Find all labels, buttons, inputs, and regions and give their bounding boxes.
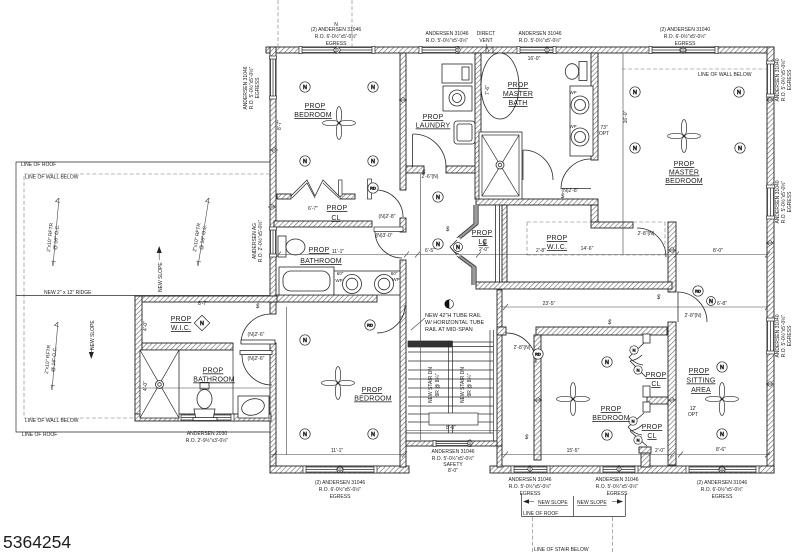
svg-text:CL: CL <box>331 215 340 222</box>
svg-text:N: N <box>371 85 375 91</box>
svg-text:PROP: PROP <box>171 316 192 323</box>
svg-text:EGRESS: EGRESS <box>712 494 734 500</box>
svg-text:5364254: 5364254 <box>3 532 71 552</box>
svg-text:PROP: PROP <box>327 205 348 212</box>
svg-text:4'-0": 4'-0" <box>143 321 149 331</box>
svg-text:N: N <box>737 90 741 96</box>
svg-text:N: N <box>436 242 440 248</box>
svg-text:N: N <box>709 299 713 305</box>
svg-text:$: $ <box>656 295 661 301</box>
svg-text:R.O. 5'-0½"x5'-0½": R.O. 5'-0½"x5'-0½" <box>519 37 562 44</box>
svg-text:PROP: PROP <box>508 82 529 89</box>
svg-text:WP: WP <box>335 278 342 283</box>
svg-text:BEDROOM: BEDROOM <box>294 112 332 119</box>
svg-text:8'-7": 8'-7" <box>198 301 208 307</box>
svg-text:NEW SLOPE: NEW SLOPE <box>90 320 96 350</box>
svg-text:2'-8"(N): 2'-8"(N) <box>514 345 531 351</box>
svg-text:6'-5": 6'-5" <box>425 248 435 254</box>
svg-text:(N)2'-6": (N)2'-6" <box>248 356 265 362</box>
svg-text:R.O. 6'-0½"x5'-0½": R.O. 6'-0½"x5'-0½" <box>315 33 358 40</box>
svg-text:NEW SLOPE: NEW SLOPE <box>158 262 164 292</box>
svg-text:NEW STAIR DN: NEW STAIR DN <box>460 367 466 403</box>
svg-text:R.O. 5'-0½"x5'-0½": R.O. 5'-0½"x5'-0½" <box>596 483 639 490</box>
svg-text:2'-6"(N): 2'-6"(N) <box>422 174 439 180</box>
svg-text:N: N <box>720 432 724 438</box>
svg-text:PROP: PROP <box>305 103 326 110</box>
svg-text:BATH: BATH <box>509 100 528 107</box>
svg-text:LINE OF ROOF: LINE OF ROOF <box>22 432 57 438</box>
svg-text:ANDERSEN 31046: ANDERSEN 31046 <box>431 449 474 455</box>
svg-text:N: N <box>632 419 635 424</box>
svg-text:RD: RD <box>370 186 376 191</box>
svg-text:LINE OF STAIR BELOW: LINE OF STAIR BELOW <box>534 547 589 553</box>
svg-text:R.O. 5'-0½"x5'-0½": R.O. 5'-0½"x5'-0½" <box>432 455 475 462</box>
svg-text:N: N <box>200 321 204 327</box>
svg-text:W.I.C.: W.I.C. <box>547 244 567 251</box>
svg-text:EGRESS: EGRESS <box>520 491 542 497</box>
svg-text:DIRECT: DIRECT <box>477 31 496 37</box>
svg-text:OPT: OPT <box>599 131 609 137</box>
svg-text:$: $ <box>255 304 260 310</box>
svg-text:R.O. 5'-0½"x5'-0½": R.O. 5'-0½"x5'-0½" <box>509 483 552 490</box>
svg-text:CL: CL <box>647 433 656 440</box>
svg-text:PROP: PROP <box>601 406 622 413</box>
svg-text:EGRESS: EGRESS <box>607 491 629 497</box>
svg-text:6'-8": 6'-8" <box>717 301 727 307</box>
svg-text:(2) ANDERSEN 31040: (2) ANDERSEN 31040 <box>660 27 711 33</box>
svg-text:4'-0": 4'-0" <box>143 381 149 391</box>
svg-text:AREA: AREA <box>691 387 711 394</box>
svg-text:RD: RD <box>695 289 701 294</box>
svg-text:2'-0": 2'-0" <box>655 448 665 454</box>
svg-text:6'-7": 6'-7" <box>308 206 318 212</box>
svg-text:N: N <box>334 22 338 28</box>
svg-text:CL: CL <box>651 381 660 388</box>
svg-text:16'-0": 16'-0" <box>528 56 541 62</box>
svg-text:PROP: PROP <box>362 387 383 394</box>
svg-text:(N)2'-8": (N)2'-8" <box>562 188 579 194</box>
svg-text:R.O. 6'-0½"x5'-0½": R.O. 6'-0½"x5'-0½" <box>319 486 362 493</box>
svg-text:EGRESS: EGRESS <box>326 41 348 47</box>
svg-text:W.I.C.: W.I.C. <box>171 325 191 332</box>
svg-text:R.O. 2'-0½"x5'-0½": R.O. 2'-0½"x5'-0½" <box>257 220 264 263</box>
svg-text:BATHROOM: BATHROOM <box>193 377 235 384</box>
svg-text:LINE OF WALL BELOW: LINE OF WALL BELOW <box>25 175 79 181</box>
svg-text:N: N <box>633 90 637 96</box>
svg-text:R.O. 5'-0½"x5'-0½": R.O. 5'-0½"x5'-0½" <box>248 67 255 110</box>
svg-text:2'-8"(N): 2'-8"(N) <box>638 231 655 237</box>
svg-text:NEW 42"H TUBE RAIL: NEW 42"H TUBE RAIL <box>425 313 481 319</box>
svg-text:N: N <box>303 432 307 438</box>
svg-text:$: $ <box>445 227 450 233</box>
svg-text:60": 60" <box>391 271 398 276</box>
svg-text:BEDROOM: BEDROOM <box>592 415 630 422</box>
svg-text:2'-8": 2'-8" <box>536 248 546 254</box>
svg-text:14'-6": 14'-6" <box>581 246 594 252</box>
svg-text:R.O. 2'-9½"x3'-0½": R.O. 2'-9½"x3'-0½" <box>186 437 229 444</box>
svg-text:R.O. 6'-0½"x5'-0½": R.O. 6'-0½"x5'-0½" <box>701 486 744 493</box>
svg-text:11'-1": 11'-1" <box>331 448 344 454</box>
svg-text:N: N <box>303 85 307 91</box>
svg-text:2'-0": 2'-0" <box>479 247 489 253</box>
svg-text:PROP: PROP <box>674 161 695 168</box>
svg-text:R.O. 5'-0½"x5'-0½": R.O. 5'-0½"x5'-0½" <box>780 181 787 224</box>
svg-text:N: N <box>720 365 724 371</box>
svg-text:RAIL AT MID-SPAN: RAIL AT MID-SPAN <box>425 327 473 333</box>
svg-text:WP: WP <box>569 90 576 95</box>
svg-text:8'-0": 8'-0" <box>448 468 458 474</box>
svg-text:16'-0": 16'-0" <box>623 110 629 123</box>
svg-text:MASTER: MASTER <box>503 91 533 98</box>
svg-text:RD: RD <box>367 323 373 328</box>
svg-text:15'-5": 15'-5" <box>567 448 580 454</box>
svg-text:BATHROOM: BATHROOM <box>300 258 342 265</box>
svg-text:ANDERSEN 31046: ANDERSEN 31046 <box>518 31 561 37</box>
svg-text:8'-0": 8'-0" <box>713 248 723 254</box>
svg-text:N: N <box>303 338 307 344</box>
svg-text:11'-1": 11'-1" <box>332 249 345 255</box>
svg-text:W/ HORIZONTAL TUBE: W/ HORIZONTAL TUBE <box>425 320 485 326</box>
svg-text:VENT: VENT <box>479 38 492 44</box>
svg-text:LINE OF ROOF: LINE OF ROOF <box>523 511 558 517</box>
svg-text:EGRESS: EGRESS <box>255 77 261 99</box>
svg-text:9R @ 8¼": 9R @ 8¼" <box>435 373 441 396</box>
svg-text:EGRESS: EGRESS <box>787 191 793 213</box>
svg-text:NEW STAIR DN: NEW STAIR DN <box>428 367 434 403</box>
svg-text:LINE OF ROOF: LINE OF ROOF <box>21 162 56 168</box>
svg-text:EGRESS: EGRESS <box>787 325 793 347</box>
svg-text:N: N <box>371 159 375 165</box>
svg-text:7'-6": 7'-6" <box>485 85 491 95</box>
svg-text:EGRESS: EGRESS <box>787 69 793 91</box>
svg-text:60": 60" <box>337 271 344 276</box>
svg-text:PROP: PROP <box>646 372 667 379</box>
svg-text:N: N <box>637 368 640 373</box>
svg-text:PROP: PROP <box>642 424 663 431</box>
svg-text:LC: LC <box>478 239 487 246</box>
svg-text:N: N <box>605 360 609 366</box>
svg-text:8'-7": 8'-7" <box>277 120 283 130</box>
svg-text:N: N <box>605 433 609 439</box>
svg-text:NEW 2" x 12" RIDGE: NEW 2" x 12" RIDGE <box>44 290 92 296</box>
svg-text:R.O. 6'-0½"x5'-0½": R.O. 6'-0½"x5'-0½" <box>664 33 707 40</box>
svg-text:(N)3'-0": (N)3'-0" <box>376 233 393 239</box>
svg-text:N: N <box>738 146 742 152</box>
svg-text:(2) ANDERSEN 31046: (2) ANDERSEN 31046 <box>697 480 748 486</box>
svg-text:9R @ 8¼": 9R @ 8¼" <box>467 373 473 396</box>
svg-text:(N)2'-6": (N)2'-6" <box>248 332 265 338</box>
svg-text:N: N <box>633 348 636 353</box>
svg-text:23'-5": 23'-5" <box>543 301 556 307</box>
svg-text:$: $ <box>607 320 612 326</box>
svg-text:SITTING: SITTING <box>686 378 715 385</box>
svg-text:N: N <box>456 245 460 251</box>
svg-text:ANDERSEN 31046: ANDERSEN 31046 <box>508 477 551 483</box>
svg-text:PROP: PROP <box>423 114 444 121</box>
svg-text:PROP: PROP <box>472 230 493 237</box>
svg-text:LINE OF WALL BELOW: LINE OF WALL BELOW <box>25 418 79 424</box>
svg-text:$: $ <box>524 435 529 441</box>
svg-text:$: $ <box>560 194 565 200</box>
svg-text:NEW SLOPE: NEW SLOPE <box>538 500 568 506</box>
svg-text:LAUNDRY: LAUNDRY <box>416 123 451 130</box>
svg-text:N: N <box>633 146 637 152</box>
svg-text:(N)2'-8": (N)2'-8" <box>379 214 396 220</box>
svg-text:2'-8"(N): 2'-8"(N) <box>685 313 702 319</box>
svg-text:(2) ANDERSEN 31046: (2) ANDERSEN 31046 <box>315 480 366 486</box>
svg-text:R.O. 5'-0½"x5'-0½": R.O. 5'-0½"x5'-0½" <box>780 59 787 102</box>
svg-text:BEDROOM: BEDROOM <box>665 178 703 185</box>
svg-text:NEW SLOPE: NEW SLOPE <box>577 500 607 506</box>
svg-text:N: N <box>637 438 640 443</box>
svg-text:PROP: PROP <box>547 235 568 242</box>
svg-text:N: N <box>303 159 307 165</box>
svg-text:ANDERSEN 2030: ANDERSEN 2030 <box>187 431 228 437</box>
svg-text:ANDERSEN 31046: ANDERSEN 31046 <box>595 477 638 483</box>
svg-text:R.O. 5'-0½"x5'-0½": R.O. 5'-0½"x5'-0½" <box>426 37 469 44</box>
svg-text:OPT: OPT <box>688 412 698 418</box>
svg-text:EGRESS: EGRESS <box>330 494 352 500</box>
svg-text:8'-0": 8'-0" <box>446 425 456 431</box>
svg-text:ANDERSEN 31046: ANDERSEN 31046 <box>425 31 468 37</box>
svg-text:RD: RD <box>535 352 541 357</box>
svg-text:LINE OF WALL BELOW: LINE OF WALL BELOW <box>698 72 752 78</box>
svg-text:PROP: PROP <box>203 368 224 375</box>
svg-text:R.O. 5'-0½"x5'-0½": R.O. 5'-0½"x5'-0½" <box>780 315 787 358</box>
svg-text:WP: WP <box>569 124 576 129</box>
svg-text:N: N <box>371 432 375 438</box>
svg-text:PROP: PROP <box>309 247 330 254</box>
svg-text:BEDROOM: BEDROOM <box>354 396 392 403</box>
svg-text:PROP: PROP <box>689 368 710 375</box>
svg-text:EGRESS: EGRESS <box>675 41 697 47</box>
svg-text:WP: WP <box>392 277 399 282</box>
svg-text:N: N <box>436 195 440 201</box>
svg-text:MASTER: MASTER <box>669 170 699 177</box>
svg-text:8'-6": 8'-6" <box>716 447 726 453</box>
